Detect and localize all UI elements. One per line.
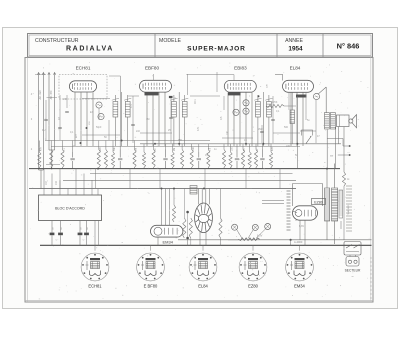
svg-text:2M: 2M xyxy=(174,148,176,151)
svg-text:MF1: MF1 xyxy=(194,99,197,104)
svg-text:TRANSFO: TRANSFO xyxy=(347,204,350,215)
svg-text:10K: 10K xyxy=(193,146,195,151)
svg-text:471: 471 xyxy=(130,103,133,108)
svg-text:...: ... xyxy=(347,150,350,154)
svg-text:50pF: 50pF xyxy=(96,126,102,129)
svg-text:5K: 5K xyxy=(104,136,107,139)
svg-text:2nF: 2nF xyxy=(136,130,141,133)
svg-text:1M: 1M xyxy=(136,148,138,151)
svg-text:6,3V: 6,3V xyxy=(299,225,304,228)
svg-text:47K: 47K xyxy=(272,146,274,151)
svg-text:6,3V: 6,3V xyxy=(257,234,263,238)
svg-text:AC. PO: AC. PO xyxy=(49,91,53,100)
svg-text:E BF80: E BF80 xyxy=(144,284,158,289)
svg-text:5M: 5M xyxy=(53,227,55,230)
svg-text:22K: 22K xyxy=(286,145,291,148)
svg-text:47K: 47K xyxy=(41,146,43,151)
svg-text:1M: 1M xyxy=(146,118,149,121)
svg-text:~: ~ xyxy=(295,219,297,223)
svg-text:CO: CO xyxy=(54,181,58,185)
svg-text:5M: 5M xyxy=(81,227,83,230)
svg-text:350: 350 xyxy=(178,139,183,142)
svg-text:ECH81: ECH81 xyxy=(76,65,91,70)
svg-text:500: 500 xyxy=(284,126,289,129)
svg-text:5nF: 5nF xyxy=(114,146,116,151)
svg-text:RADIALVA: RADIALVA xyxy=(66,46,114,53)
svg-text:5M: 5M xyxy=(61,227,63,230)
svg-text:HT: HT xyxy=(330,155,334,158)
svg-text:1K: 1K xyxy=(244,139,247,142)
svg-text:EZ80: EZ80 xyxy=(248,284,259,289)
svg-text:1954: 1954 xyxy=(288,46,303,53)
svg-text:47K: 47K xyxy=(197,126,200,131)
svg-text:5M: 5M xyxy=(87,227,89,230)
svg-text:10n: 10n xyxy=(226,130,229,135)
svg-text:EL84: EL84 xyxy=(290,65,301,70)
svg-text:EBF80: EBF80 xyxy=(145,65,159,70)
svg-text:22K: 22K xyxy=(267,84,269,88)
svg-text:CV: CV xyxy=(44,181,48,185)
svg-text:SUPER-MAJOR: SUPER-MAJOR xyxy=(187,46,246,53)
svg-text:AC. GO: AC. GO xyxy=(38,90,42,99)
svg-text:EZ80: EZ80 xyxy=(314,200,323,204)
svg-text:PU: PU xyxy=(42,129,46,132)
svg-text:EL84: EL84 xyxy=(198,284,208,289)
svg-text:2M2: 2M2 xyxy=(258,128,263,131)
svg-text:EM34: EM34 xyxy=(294,284,305,289)
svg-text:EX: EX xyxy=(90,111,94,114)
svg-text:BLOC D’ACCORD: BLOC D’ACCORD xyxy=(55,207,85,211)
svg-text:MODELE: MODELE xyxy=(159,38,181,44)
svg-text:CONSTRUCTEUR: CONSTRUCTEUR xyxy=(35,38,79,44)
svg-text:EM34: EM34 xyxy=(162,239,173,244)
svg-text:N° 846: N° 846 xyxy=(337,42,360,51)
svg-text:ANNEE: ANNEE xyxy=(285,38,303,44)
svg-text:A-2900: A-2900 xyxy=(294,240,303,244)
svg-text:ECH81: ECH81 xyxy=(88,284,102,289)
svg-text:SECTEUR: SECTEUR xyxy=(345,269,361,273)
svg-text:EBI83: EBI83 xyxy=(234,65,247,70)
